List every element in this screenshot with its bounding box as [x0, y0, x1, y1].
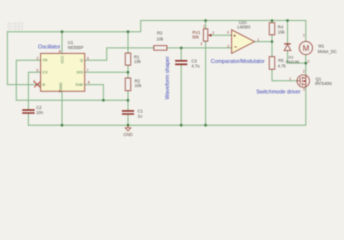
svg-text:LM393: LM393 — [237, 24, 250, 29]
svg-text:1: 1 — [203, 25, 205, 29]
svg-text:10k: 10k — [134, 59, 142, 64]
svg-text:2: 2 — [37, 57, 39, 61]
svg-text:Oscillator: Oscillator — [38, 44, 61, 50]
svg-text:10k: 10k — [135, 83, 143, 88]
svg-text:R3: R3 — [157, 30, 163, 35]
svg-text:Comparator/Modulator: Comparator/Modulator — [211, 59, 265, 65]
svg-text:TR: TR — [42, 58, 47, 62]
svg-text:3: 3 — [87, 57, 89, 61]
svg-text:6: 6 — [88, 81, 90, 85]
svg-text:R5: R5 — [278, 58, 284, 63]
svg-text:4.7k: 4.7k — [278, 63, 287, 68]
svg-text:Motor_DC: Motor_DC — [318, 49, 337, 54]
svg-text:2: 2 — [307, 59, 309, 63]
svg-text:CV: CV — [42, 71, 48, 75]
svg-text:Switchmode driver: Switchmode driver — [256, 89, 301, 95]
svg-text:2: 2 — [212, 31, 214, 35]
svg-text:4.7u: 4.7u — [191, 63, 200, 68]
svg-text:3: 3 — [227, 30, 229, 34]
svg-text:M1: M1 — [318, 44, 324, 49]
svg-text:1: 1 — [289, 77, 291, 81]
svg-text:10k: 10k — [157, 36, 165, 41]
svg-text:1: 1 — [303, 34, 305, 38]
svg-text:1N4148: 1N4148 — [285, 59, 299, 64]
svg-text:M: M — [303, 44, 310, 53]
svg-text:NE555P: NE555P — [68, 45, 84, 50]
svg-text:THR: THR — [75, 83, 83, 87]
svg-text:5: 5 — [36, 68, 38, 72]
svg-text:3: 3 — [303, 87, 305, 91]
svg-text:3: 3 — [200, 42, 202, 46]
svg-text:GND: GND — [59, 82, 63, 91]
svg-text:1: 1 — [257, 38, 259, 42]
svg-text:8: 8 — [59, 50, 61, 54]
svg-text:10n: 10n — [36, 110, 44, 115]
svg-text:GND: GND — [123, 132, 132, 137]
svg-text:Q: Q — [80, 58, 83, 62]
svg-text:4: 4 — [33, 80, 35, 84]
svg-text:R: R — [42, 83, 45, 87]
svg-text:2: 2 — [303, 69, 305, 73]
svg-text:2: 2 — [227, 44, 229, 48]
svg-text:VCC: VCC — [60, 55, 64, 63]
svg-text:1u: 1u — [138, 113, 143, 118]
svg-text:50k: 50k — [192, 34, 200, 39]
svg-text:IRF540N: IRF540N — [315, 81, 332, 86]
svg-text:Waveform shaper: Waveform shaper — [165, 56, 171, 99]
svg-text:7: 7 — [87, 68, 89, 72]
svg-text:15k: 15k — [278, 29, 286, 34]
svg-text:DIS: DIS — [77, 71, 84, 75]
